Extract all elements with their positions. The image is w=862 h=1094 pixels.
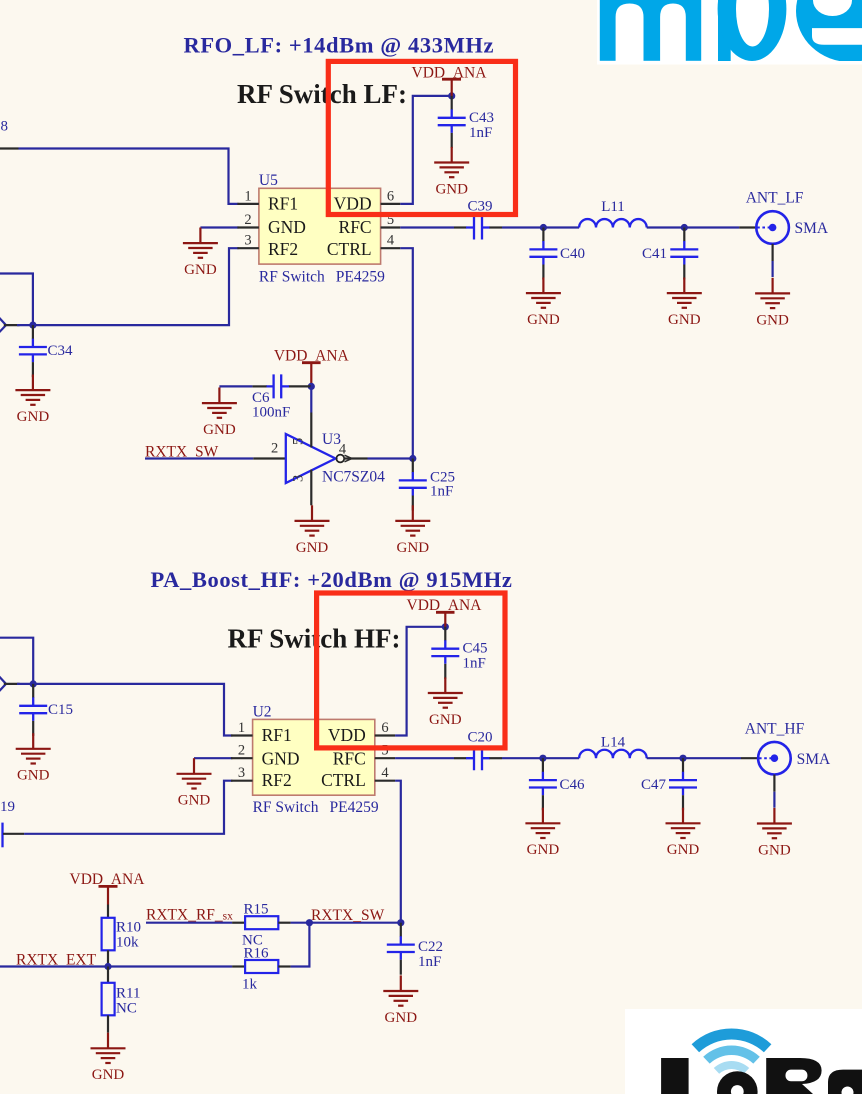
- svg-text:NC: NC: [116, 1001, 137, 1017]
- wire: [368, 457, 413, 459]
- wire: [502, 226, 579, 228]
- ground C25: [395, 505, 430, 556]
- svg-text:1nF: 1nF: [469, 125, 492, 141]
- wire VDD pin to power: [395, 627, 445, 736]
- ground U2 pin2: [177, 758, 212, 809]
- pin 6 U2: [375, 734, 395, 736]
- svg-text:GND: GND: [262, 748, 300, 768]
- letter L: [661, 1058, 689, 1094]
- letter a: [828, 1070, 862, 1094]
- svg-text:RF2: RF2: [268, 239, 298, 259]
- ground ANT_HF: [757, 808, 792, 859]
- junction: [29, 322, 36, 329]
- arc 3: [714, 1061, 749, 1074]
- svg-text:RF1: RF1: [268, 194, 298, 214]
- resistor R11: [102, 967, 141, 1033]
- wire RFC to C20: [395, 757, 454, 759]
- svg-text:1nF: 1nF: [418, 954, 441, 970]
- junction: [104, 963, 111, 970]
- ground C22: [383, 975, 418, 1026]
- wire RFC to C39: [400, 226, 454, 228]
- svg-text:ANT_HF: ANT_HF: [745, 721, 805, 738]
- svg-text:100nF: 100nF: [252, 404, 290, 420]
- ground U5 pin2: [183, 228, 218, 279]
- wire: [19, 149, 239, 204]
- capacitor C45: [431, 627, 459, 679]
- svg-text:3: 3: [238, 765, 245, 781]
- power VDD_ANA U3: [274, 348, 350, 387]
- svg-text:C22: C22: [418, 939, 443, 955]
- wire CTRL to RXTX_SW: [395, 781, 401, 923]
- capacitor C15: [19, 684, 47, 736]
- ground C41: [667, 278, 702, 329]
- svg-text:SMA: SMA: [795, 220, 829, 237]
- junction: [681, 224, 688, 231]
- arc 1: [692, 1028, 772, 1052]
- svg-text:U5: U5: [259, 172, 278, 189]
- pin 4 U2: [375, 780, 395, 782]
- svg-text:U3: U3: [322, 431, 341, 448]
- svg-text:2: 2: [238, 743, 245, 759]
- wire: [219, 385, 252, 387]
- wire VDD pin to power: [400, 96, 451, 204]
- svg-text:5: 5: [381, 743, 388, 759]
- svg-text:VDD: VDD: [334, 194, 372, 214]
- capacitor C6: [252, 374, 311, 420]
- svg-text:3: 3: [291, 475, 307, 482]
- capacitor C47: [669, 758, 697, 810]
- pin 2 U5: [237, 226, 259, 228]
- svg-text:SMA: SMA: [797, 751, 831, 768]
- svg-text:PE4259: PE4259: [336, 269, 385, 286]
- power VDD_ANA R10: [70, 871, 146, 905]
- ground C34: [15, 375, 50, 426]
- mbed logo: [597, 0, 862, 65]
- svg-text:4: 4: [387, 233, 395, 249]
- wire CTRL to inverter output: [400, 248, 413, 458]
- capacitor C20: [454, 746, 502, 770]
- svg-text:R11: R11: [116, 986, 140, 1002]
- svg-text:RF Switch LF:: RF Switch LF:: [237, 79, 407, 109]
- svg-text:C34: C34: [48, 343, 74, 359]
- svg-text:GND: GND: [268, 217, 306, 237]
- wire: [17, 248, 239, 325]
- node RF2 off-sheet arrow: [0, 318, 6, 333]
- resistor R15: [232, 902, 291, 949]
- op-amp U2 body: [253, 704, 379, 817]
- wire: [647, 757, 741, 759]
- svg-text:4: 4: [381, 765, 389, 781]
- svg-text:RF1: RF1: [262, 725, 292, 745]
- svg-text:3: 3: [244, 233, 251, 249]
- svg-text:C40: C40: [560, 246, 585, 262]
- svg-text:10k: 10k: [116, 935, 139, 951]
- ground U3: [295, 505, 330, 556]
- junction: [308, 383, 315, 390]
- capacitor C40: [529, 228, 557, 280]
- svg-text:L14: L14: [601, 735, 626, 751]
- svg-text:C43: C43: [469, 110, 494, 126]
- ground C46: [525, 808, 560, 859]
- junction: [539, 755, 546, 762]
- pin 5 U5: [381, 226, 401, 228]
- letter R: [766, 1058, 821, 1094]
- svg-text:RXTX_SW: RXTX_SW: [311, 907, 385, 924]
- LoRa logo: [625, 1009, 862, 1094]
- junction: [442, 623, 449, 630]
- ground C15: [16, 733, 51, 784]
- svg-text:19: 19: [0, 799, 15, 815]
- ground R11: [91, 1033, 126, 1084]
- svg-text:RF Switch: RF Switch: [259, 269, 325, 286]
- svg-text:PA_Boost_HF: +20dBm @ 915MHz: PA_Boost_HF: +20dBm @ 915MHz: [151, 567, 513, 593]
- wire: [502, 757, 579, 759]
- svg-text:8: 8: [1, 119, 9, 135]
- svg-text:6: 6: [381, 720, 388, 736]
- svg-text:C46: C46: [560, 777, 586, 793]
- wire: [0, 638, 33, 684]
- svg-text:1: 1: [244, 188, 251, 204]
- svg-text:NC7SZ04: NC7SZ04: [322, 468, 385, 485]
- ground C45: [428, 677, 463, 728]
- wire: [291, 923, 310, 967]
- ground C47: [666, 808, 701, 859]
- svg-text:ANT_LF: ANT_LF: [746, 190, 804, 207]
- ground C40: [526, 278, 561, 329]
- wire: [0, 965, 232, 967]
- wire: [200, 226, 238, 228]
- wire: [0, 274, 33, 326]
- junction: [306, 919, 313, 926]
- svg-text:2: 2: [271, 440, 278, 456]
- pin 5 U2: [375, 757, 395, 759]
- capacitor C22: [387, 923, 415, 975]
- svg-text:1nF: 1nF: [463, 656, 486, 672]
- pin 2 U2: [231, 757, 253, 759]
- connector ANT_HF SMA: [741, 742, 791, 808]
- svg-text:CTRL: CTRL: [327, 239, 372, 259]
- svg-text:RF Switch: RF Switch: [253, 799, 319, 816]
- svg-text:L11: L11: [601, 199, 625, 215]
- svg-text:RXTX_RF_sx: RXTX_RF_sx: [146, 907, 233, 924]
- ground C6: [202, 388, 237, 439]
- junction: [397, 919, 404, 926]
- svg-text:R15: R15: [244, 902, 269, 918]
- wire: [24, 781, 232, 834]
- junction: [30, 680, 37, 687]
- capacitor C39: [454, 216, 502, 240]
- power VDD_ANA: [412, 65, 488, 96]
- junction: [448, 92, 455, 99]
- capacitor C34: [19, 325, 47, 377]
- svg-text:2: 2: [244, 212, 251, 228]
- pin 3 U2: [231, 780, 253, 782]
- ground C43: [434, 147, 469, 198]
- svg-text:1nF: 1nF: [430, 484, 453, 500]
- svg-text:R10: R10: [116, 920, 141, 936]
- node off-sheet arrow: [0, 676, 6, 691]
- capacitor C43: [438, 96, 466, 148]
- svg-text:RFC: RFC: [333, 748, 366, 768]
- junction: [679, 755, 686, 762]
- wire: [291, 922, 401, 924]
- pin 1 U5: [237, 203, 259, 205]
- svg-text:5: 5: [291, 438, 307, 445]
- svg-text:RFC: RFC: [339, 217, 372, 237]
- svg-text:C15: C15: [48, 702, 73, 718]
- svg-text:C41: C41: [642, 246, 667, 262]
- inductor L14: [579, 750, 647, 758]
- svg-text:1k: 1k: [242, 977, 258, 993]
- svg-text:1: 1: [238, 720, 245, 736]
- svg-text:RF2: RF2: [262, 770, 292, 790]
- highlight box LF: [328, 61, 515, 214]
- pin 6 U5: [381, 203, 401, 205]
- svg-text:C47: C47: [641, 777, 667, 793]
- arc 2: [703, 1046, 760, 1064]
- svg-text:PE4259: PE4259: [330, 799, 379, 816]
- wire: [194, 757, 233, 759]
- wire: [17, 684, 233, 736]
- transistor U3 inverter NC7SZ04: [253, 386, 385, 505]
- ground ANT_LF: [755, 278, 790, 329]
- highlight box HF: [317, 593, 505, 748]
- capacitor C46: [529, 758, 557, 810]
- svg-text:VDD: VDD: [328, 725, 366, 745]
- letter o: [717, 1071, 758, 1094]
- svg-text:RF Switch HF:: RF Switch HF:: [228, 624, 401, 654]
- wire: [146, 922, 232, 924]
- junction: [540, 224, 547, 231]
- wire: [145, 457, 253, 459]
- pin 4 U5: [381, 247, 401, 249]
- capacitor C25: [399, 459, 427, 511]
- pin 1 U2: [231, 734, 253, 736]
- inductor L11: [579, 219, 647, 227]
- junction: [409, 455, 416, 462]
- wire: [647, 226, 740, 228]
- svg-text:6: 6: [387, 188, 394, 204]
- resistor R16: [232, 946, 291, 993]
- op-amp U5 body: [259, 172, 385, 286]
- svg-text:RFO_LF: +14dBm @ 433MHz: RFO_LF: +14dBm @ 433MHz: [183, 33, 494, 59]
- capacitor C41: [670, 228, 698, 280]
- resistor R10: [102, 905, 141, 967]
- svg-text:CTRL: CTRL: [321, 770, 366, 790]
- pin 3 U5: [237, 247, 259, 249]
- svg-text:U2: U2: [253, 704, 272, 721]
- connector ANT_LF SMA: [739, 211, 789, 277]
- svg-text:C45: C45: [463, 641, 488, 657]
- svg-text:R16: R16: [244, 946, 270, 962]
- svg-text:C20: C20: [467, 730, 492, 746]
- power VDD_ANA HF: [407, 597, 483, 627]
